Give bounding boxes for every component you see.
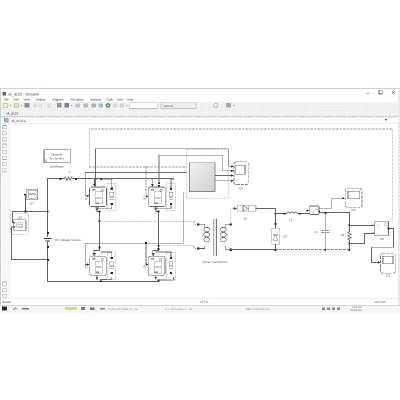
node: bus junction at 259.8 [47,259,49,261]
svg-text:5/14/2019: 5/14/2019 [350,309,362,312]
svg-text:Analysis: Analysis [90,97,102,101]
node: L1 terminals [284,213,301,215]
svg-text:ok3: ok3 [17,216,22,220]
svg-text:127%: 127% [200,300,208,304]
wire: VM output to scope G3 [372,229,394,263]
svg-text:Ts = 1e-06 s.: Ts = 1e-06 s. [49,158,65,161]
wire: main output continues [319,212,350,214]
title bar [3,91,395,97]
svg-text:G2: G2 [351,208,355,212]
wire: Q3 snubber top hook [101,252,112,257]
svg-text:Discrete: Discrete [51,152,62,156]
svg-text:VM: VM [380,237,385,241]
left palette [1,123,10,298]
wire: Q2 snubber hooks [156,179,174,209]
wire: output bottom rail (solid then dashed) [231,249,350,251]
svg-text:D1: D1 [244,216,248,220]
svg-text:G3: G3 [386,274,390,278]
svg-text:-: - [377,232,378,236]
svg-text:ok_dc22: ok_dc22 [6,112,19,116]
menu bar [4,97,134,101]
svg-text:D2: D2 [283,235,287,239]
diode D2 (freewheeling, vertical) [272,228,288,250]
resistor A (series) [63,170,74,180]
powergui block [44,150,70,169]
wire: primary bottom to transformer (dashed) [159,246,196,249]
linear transformer [197,219,232,264]
toolbar icons [3,103,7,107]
wire: Q1 snubber hooks [97,179,112,209]
scope B+ (display block) [24,189,38,205]
wire: primary top to transformer (dashed) [100,221,196,224]
wire: gate line upper (dashed) [89,166,186,168]
wire: secondary top to D1 (dashed vertical) [231,208,235,223]
wire: top DC rail [48,178,174,180]
svg-text:L1: L1 [289,217,293,221]
svg-text:A LOW DC PAGE 11 - Pa...: A LOW DC PAGE 11 - Pa... [108,308,140,311]
snubber of Q3 [107,253,116,280]
wire: top dashed feedback line [89,129,392,221]
block ok3 (commented, dashed surround) [10,214,28,234]
wire: bottom DC rail [48,277,174,281]
node: C1 top junction [324,212,326,214]
tab bar [1,112,399,117]
wire: Q2 measurement to G1 in2 [159,155,231,183]
svg-text:Tools: Tools [117,97,125,101]
node: output node junctions [275,213,277,225]
svg-text:B+: B+ [30,202,34,206]
svg-text:BBS CATALOG 14.5: BBS CATALOG 14.5 [246,308,270,311]
wire: ok3 lower input from bus [12,227,48,260]
node: left mid junctions [99,211,101,249]
svg-text:ode23tb: ode23tb [374,300,386,304]
inductor L1 [287,212,298,221]
wire: DC bus left vertical [47,179,49,282]
scope G1 (commented, 4 inputs) [234,162,248,191]
wire: Q2 gate drop (dashed) [145,167,147,196]
node: R1 junctions [348,224,350,244]
wire: bottom gate bus [85,193,183,265]
scope G2 (commented) [345,189,362,212]
status bar [1,299,399,304]
resistor R1 (load, vertical) [341,213,352,250]
transistor Q1 [84,179,107,210]
svg-text:E 2. 230 FLAN 2.1 - Mo...: E 2. 230 FLAN 2.1 - Mo... [165,308,195,311]
wire: Q4 gate drop [145,243,147,264]
wire: Q1 gate drop [85,173,87,196]
svg-text:View: View [24,97,31,101]
svg-text:R1: R1 [341,233,345,237]
breadcrumb bar [1,117,399,123]
node: tap junctions [25,211,49,213]
svg-text:ok_dc22 ▸: ok_dc22 ▸ [11,119,26,123]
transistor Q3 [84,251,106,280]
subsystem pulse generator (commented) [186,149,228,198]
svg-text:Ready: Ready [2,300,12,304]
taskbar [0,306,400,314]
svg-text:C1: C1 [314,230,318,234]
wire: subsystem outputs to G1 in3 in4 [215,176,232,181]
svg-text:Help: Help [127,97,134,101]
snubber of Q4 [167,253,176,280]
svg-text:A: A [69,170,71,174]
node: right mid junctions [158,211,160,250]
svg-text:T: T [202,156,204,160]
transistor Q2 [143,179,166,210]
wire: right bridge mid vertical [153,210,159,253]
snubber of Q2 [167,183,176,210]
wire: D1 to node, down to D2 [258,209,275,229]
wire: gate line upper2 (solid) [85,172,186,174]
transistor Q4 [143,251,165,279]
window frame [1,89,400,306]
scope G3 (commented) [381,254,396,278]
current sensor i [307,206,321,215]
svg-text:powergui: powergui [51,165,64,169]
svg-text:Linear Transformer: Linear Transformer [202,260,227,264]
node: gate bus junction [145,242,147,244]
node: bottom output junctions [275,249,350,251]
node: rail junctions [60,178,102,180]
node: bottom rail junctions [100,280,159,283]
svg-text:+: + [377,224,379,228]
svg-text:Code: Code [106,97,114,101]
DC Voltage Source [45,232,82,248]
wire: left bridge mid vertical [94,210,100,253]
wire: sensor to G2 scope [320,198,343,208]
capacitor C1 [314,214,329,250]
svg-text:G1: G1 [239,186,243,190]
svg-text:File: File [4,97,9,101]
node: D1 anode junction [234,207,236,209]
snubber of Q1 [107,183,116,210]
wire: Q4 snubber top hook [156,252,171,257]
wire: Q1 measurement to G1 in1 [96,149,232,186]
toolbar [1,102,399,117]
wire: measurement tap line y=211.5 (left) [13,195,48,223]
wire: VM plus input [350,225,373,227]
diode D1 [235,205,259,220]
wire: output line through L1 [276,213,310,215]
node: Q2 measurement taps [158,182,160,186]
svg-text:Diagram: Diagram [52,97,64,101]
svg-text:ok_dc22 - Simulink: ok_dc22 - Simulink [8,92,39,96]
svg-text:DC Voltage Source: DC Voltage Source [55,238,82,242]
svg-text:Normal: Normal [164,104,174,108]
svg-text:Edit: Edit [14,97,19,101]
svg-text:Display: Display [36,97,46,101]
wire: VM minus input [350,234,373,244]
voltage measurement VM [372,221,389,241]
svg-text:Simulation: Simulation [70,97,84,101]
